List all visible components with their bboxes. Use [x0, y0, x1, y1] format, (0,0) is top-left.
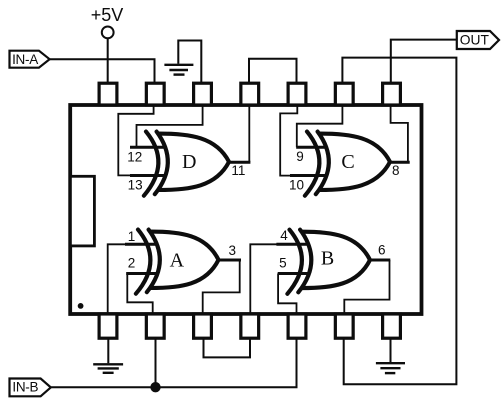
- svg-text:13: 13: [128, 177, 143, 192]
- svg-text:OUT: OUT: [460, 32, 490, 47]
- svg-text:4: 4: [280, 228, 288, 243]
- svg-text:6: 6: [378, 243, 386, 258]
- svg-text:C: C: [341, 151, 354, 173]
- svg-text:9: 9: [296, 149, 304, 164]
- svg-text:D: D: [182, 151, 196, 173]
- svg-text:3: 3: [229, 243, 237, 258]
- svg-text:+5V: +5V: [91, 5, 124, 25]
- svg-text:IN-B: IN-B: [12, 379, 38, 394]
- svg-text:11: 11: [231, 163, 245, 178]
- svg-text:1: 1: [128, 229, 136, 244]
- svg-text:10: 10: [289, 177, 304, 192]
- svg-text:12: 12: [127, 149, 142, 164]
- svg-text:5: 5: [279, 255, 287, 270]
- svg-text:IN-A: IN-A: [12, 52, 38, 67]
- svg-text:8: 8: [392, 163, 400, 178]
- svg-text:B: B: [321, 248, 334, 270]
- svg-text:2: 2: [128, 255, 136, 270]
- svg-text:A: A: [170, 249, 185, 271]
